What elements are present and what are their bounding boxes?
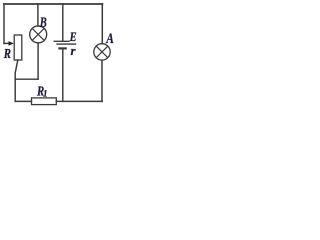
lamp B cross [32,28,44,40]
wire bottom right segment [56,100,102,102]
lamp A circle [94,44,110,60]
wire top to battery [62,4,64,41]
lamp A cross [96,46,108,58]
wire right (upper) [101,4,103,44]
battery E middle thin plate [56,43,76,45]
svg-text:1: 1 [43,89,48,99]
battery E short thick plate [58,47,67,49]
wire bottom left segment [15,100,31,102]
resistor R (rheostat body) [14,35,22,60]
svg-text:A: A [106,31,114,47]
wire battery to bottom [62,50,64,102]
wire below R [15,60,18,101]
wire below lamp B [37,43,39,79]
resistor R1 box [32,98,57,105]
battery E long plate (top thin) [54,40,70,42]
wire branch R-bottom to B-bottom [15,78,38,80]
svg-text:B: B [39,15,47,31]
wire top [4,3,102,5]
svg-text:E: E [69,29,77,44]
svg-text:R: R [3,47,11,62]
lamp B circle [30,26,47,43]
wire wiper to rheostat [4,42,10,44]
wire left (upper) [3,4,5,43]
svg-text:r: r [71,43,77,58]
wire top to lamp B [37,4,39,26]
wire right (lower) [101,60,103,101]
rheostat wiper arrowhead [9,41,14,46]
